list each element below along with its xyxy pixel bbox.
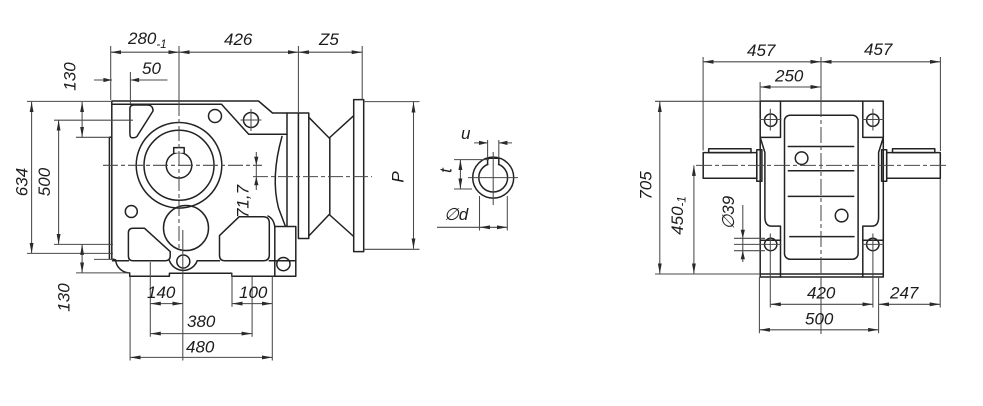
svg-text:247: 247 xyxy=(889,284,919,303)
right shaft xyxy=(887,153,941,179)
centerline output axis vertical xyxy=(178,46,180,101)
dim u line xyxy=(474,142,512,144)
ext d right xyxy=(506,196,508,231)
svg-text:∅d: ∅d xyxy=(444,205,469,224)
centerline bottom bolt vertical xyxy=(182,230,184,361)
bolt hole top right with crosshair xyxy=(244,113,259,128)
ext P top xyxy=(364,101,420,103)
bell waist junction line xyxy=(329,138,331,215)
svg-text:130: 130 xyxy=(54,283,73,312)
ext recess right vertical xyxy=(231,274,233,307)
lug bolt hole xyxy=(277,258,290,271)
crosshair bolt TL xyxy=(760,109,782,131)
svg-text:Z5: Z5 xyxy=(318,30,339,49)
right shaft key xyxy=(893,149,935,153)
output shaft bore xyxy=(166,153,192,179)
lower bore circle xyxy=(164,206,209,251)
base flange top line xyxy=(113,260,296,262)
ext 500 top xyxy=(54,119,133,121)
arrow 71,7 upper xyxy=(254,157,258,166)
output bore outer circle xyxy=(136,123,222,209)
front view left corner strip lines xyxy=(760,101,780,277)
dim line 457 right xyxy=(821,61,941,63)
dim u ext lines xyxy=(488,140,499,158)
arrow 39 upper xyxy=(741,230,745,239)
dim 71,7 line xyxy=(255,152,257,190)
panel plug circle lower xyxy=(835,209,848,222)
bell cone upper edge xyxy=(309,116,354,138)
svg-text:457: 457 xyxy=(864,40,893,59)
ext 634 bottom xyxy=(27,252,113,254)
arrow u right xyxy=(499,141,508,145)
front view left bearing boss xyxy=(760,137,780,240)
panel plug circle upper xyxy=(795,152,808,165)
ext 380 right vertical xyxy=(251,277,253,337)
bolt hole upper-left small xyxy=(125,206,137,218)
ext step line xyxy=(76,136,109,138)
ext t bottom xyxy=(454,188,472,190)
arrow 50 right xyxy=(131,78,140,82)
svg-text:705: 705 xyxy=(636,171,655,200)
ext left shaft end xyxy=(702,57,704,151)
input flange plate xyxy=(287,113,309,239)
dim line 280 xyxy=(111,51,179,53)
bottom center bolt hole xyxy=(177,255,190,268)
corner bolt hole top-left xyxy=(765,114,777,126)
dim line P xyxy=(413,102,415,249)
ext 420 right xyxy=(872,256,874,308)
dim d leader xyxy=(437,226,480,228)
corner bolt hole bottom-left xyxy=(765,238,777,250)
svg-text:500: 500 xyxy=(805,310,834,329)
shaft-end detail bore xyxy=(479,163,508,192)
shaft-end detail outer circle xyxy=(473,157,514,198)
svg-text:∅39: ∅39 xyxy=(719,195,738,229)
dim line 130 top xyxy=(81,102,83,138)
corner bolt hole top-right xyxy=(867,114,879,126)
ext P bottom xyxy=(364,248,420,250)
front view housing outline xyxy=(760,101,883,277)
left shaft xyxy=(703,153,757,179)
svg-text:250: 250 xyxy=(774,67,804,86)
ext foot bottom left xyxy=(76,272,130,274)
ext pocket left edge xyxy=(129,72,131,104)
front axis vertical xyxy=(820,57,822,101)
svg-text:130: 130 xyxy=(60,62,79,91)
output bore ring xyxy=(144,130,214,200)
keyway of output bore xyxy=(174,148,185,153)
svg-text:140: 140 xyxy=(147,283,176,302)
front view base seam xyxy=(760,273,883,275)
svg-text:380: 380 xyxy=(187,312,216,331)
arrow 71,7 lower xyxy=(254,177,258,186)
bolt hole top middle xyxy=(209,110,222,123)
svg-text:634: 634 xyxy=(12,168,31,196)
dim 39 line xyxy=(742,205,744,262)
dim line 450 xyxy=(693,165,695,273)
housing inner top face line xyxy=(112,104,287,134)
left bearing cap xyxy=(757,150,762,182)
ext 705 bottom xyxy=(655,273,760,275)
ext motor plate top xyxy=(361,46,363,100)
panel rib lines xyxy=(788,147,854,237)
ext flange top xyxy=(297,46,299,113)
centerline output axis horizontal xyxy=(103,164,262,166)
gearbox housing outline (side view) xyxy=(109,101,295,276)
dim line 420 xyxy=(770,303,873,305)
svg-text:500: 500 xyxy=(35,167,54,196)
ext foot left vertical xyxy=(129,277,131,361)
arrow 39 lower xyxy=(741,251,745,260)
top-left cast pocket xyxy=(130,105,153,138)
ext foot inner vertical xyxy=(149,262,151,337)
ext housing top left xyxy=(27,100,112,102)
ext t top xyxy=(454,159,489,161)
front view right corner strip lines xyxy=(863,101,884,277)
dim line 50 xyxy=(94,79,168,81)
svg-text:450-1: 450-1 xyxy=(668,196,689,235)
ext 500f right xyxy=(878,277,880,333)
svg-text:t: t xyxy=(436,167,455,173)
ext 500f left xyxy=(758,277,760,333)
svg-text:50: 50 xyxy=(142,59,161,78)
svg-text:P: P xyxy=(388,171,407,183)
dim line 480 xyxy=(130,356,272,358)
arrow 50 left xyxy=(103,78,112,82)
dim line 100 xyxy=(232,303,272,305)
detail crosshair vertical xyxy=(492,152,494,205)
svg-text:280-1: 280-1 xyxy=(127,29,167,51)
front view right bearing boss xyxy=(863,137,884,240)
crosshair bolt BR xyxy=(862,234,884,256)
ext housing left top xyxy=(110,46,112,100)
dim line 634 xyxy=(31,102,33,254)
ext front housing left top xyxy=(759,82,761,101)
bottom center boss arc xyxy=(170,261,198,271)
ext d left xyxy=(479,196,481,231)
dim line 426 xyxy=(179,51,298,53)
dim t line xyxy=(459,160,461,189)
ext 500 bottom xyxy=(54,243,113,245)
crosshair top right bolt xyxy=(241,109,262,131)
svg-text:71,7: 71,7 xyxy=(233,184,252,218)
pocket-to-lug fillet xyxy=(268,216,275,227)
ext 39 top xyxy=(734,237,765,239)
dim line Z5 xyxy=(298,51,362,53)
housing bell concave arc xyxy=(275,137,285,227)
front axis horizontal xyxy=(696,164,947,166)
ext right shaft end xyxy=(939,57,941,151)
right foot pocket xyxy=(220,217,270,261)
dim d line xyxy=(480,226,508,228)
detail crosshair horizontal xyxy=(468,177,518,179)
dim line 705 xyxy=(659,102,661,274)
dim line 250 xyxy=(760,86,821,88)
ext 39 bottom xyxy=(734,250,765,252)
dim line 457 left xyxy=(703,61,821,63)
corner bolt hole bottom-right xyxy=(867,238,879,250)
svg-text:457: 457 xyxy=(747,41,776,60)
crosshair bolt BL xyxy=(734,234,782,256)
ext 247 right xyxy=(939,179,941,308)
crosshair bolt TR xyxy=(862,109,884,131)
motor flange plate xyxy=(354,100,364,252)
dim line 380 xyxy=(150,333,252,335)
dim line 500 xyxy=(58,120,60,244)
centerline bell axis xyxy=(253,176,372,178)
dim line 130 bottom xyxy=(81,244,83,273)
svg-text:u: u xyxy=(461,124,471,143)
left shaft key xyxy=(709,149,751,153)
svg-text:100: 100 xyxy=(239,283,268,302)
dim line 500 front xyxy=(759,329,878,331)
ext 480 right vertical xyxy=(271,277,273,361)
ext 705 top xyxy=(655,100,760,102)
bell cone lower edge xyxy=(309,215,354,237)
arrow u left xyxy=(479,141,488,145)
svg-text:420: 420 xyxy=(807,284,836,303)
dim line 247 xyxy=(879,303,941,305)
right bearing cap xyxy=(882,150,887,182)
shaft-end detail keyway xyxy=(488,158,499,164)
ext left step short xyxy=(94,258,112,260)
dim line 140 xyxy=(150,303,183,305)
svg-text:426: 426 xyxy=(224,30,253,49)
ext 420 left xyxy=(769,256,771,308)
svg-text:480: 480 xyxy=(186,338,215,357)
front view inspection panel xyxy=(785,115,859,259)
left foot pocket xyxy=(128,228,170,261)
